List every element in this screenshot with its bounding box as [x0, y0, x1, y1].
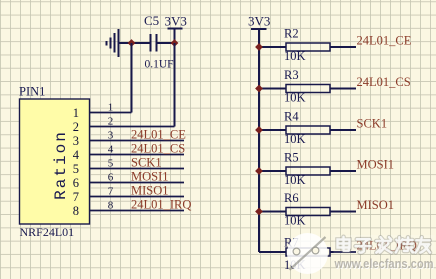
svg-text:7: 7: [73, 190, 79, 204]
wire junction B down to pin2: [174, 43, 176, 127]
svg-text:5: 5: [73, 162, 79, 176]
capacitor C5: [151, 34, 157, 52]
svg-text:10K: 10K: [284, 173, 306, 187]
resistor R3: [259, 68, 356, 105]
svg-text:Ration: Ration: [52, 130, 70, 200]
svg-text:24L01_CE: 24L01_CE: [131, 128, 186, 142]
resistor R4: [259, 110, 356, 147]
svg-text:10K: 10K: [284, 132, 306, 146]
resistor R6: [259, 191, 356, 228]
svg-text:10K: 10K: [284, 49, 306, 63]
wire junction A down to pin1: [131, 43, 133, 113]
wire 3V3 rail: [258, 29, 260, 252]
svg-text:R6: R6: [284, 191, 299, 205]
resistor R2: [259, 27, 356, 64]
junction R3: [255, 85, 263, 93]
junction R6: [255, 208, 263, 216]
svg-text:5: 5: [108, 158, 114, 170]
pin 3: [73, 130, 184, 149]
svg-text:R4: R4: [284, 110, 299, 124]
svg-text:SCK1: SCK1: [357, 116, 388, 130]
watermark: [287, 233, 435, 274]
svg-text:8: 8: [73, 204, 79, 218]
resistor R7: [259, 236, 356, 273]
pin 5: [73, 158, 184, 177]
svg-text:R5: R5: [284, 151, 299, 165]
svg-text:0.1UF: 0.1UF: [145, 59, 174, 71]
junction A: [128, 39, 136, 47]
junction R2: [255, 43, 263, 51]
svg-text:24L01_CS: 24L01_CS: [131, 142, 185, 156]
svg-text:6: 6: [73, 176, 79, 190]
svg-text:24L01_CS: 24L01_CS: [357, 75, 411, 89]
pin 8: [73, 200, 184, 219]
pin 6: [73, 172, 184, 191]
pin 7: [73, 186, 184, 205]
svg-text:3V3: 3V3: [248, 14, 270, 29]
pin 4: [73, 144, 184, 163]
svg-text:10K: 10K: [284, 214, 306, 228]
svg-text:MOSI1: MOSI1: [131, 170, 169, 184]
svg-text:7: 7: [108, 186, 114, 198]
svg-text:1: 1: [108, 102, 114, 114]
svg-text:3: 3: [73, 134, 79, 148]
svg-text:8: 8: [108, 200, 114, 212]
wire junction A to C5 left plate: [132, 42, 151, 44]
part U1 body: [20, 99, 90, 224]
svg-text:PIN1: PIN1: [19, 85, 45, 99]
svg-text:www.elecfans.com: www.elecfans.com: [334, 256, 434, 271]
wire C5 right plate to junction B: [157, 42, 175, 44]
svg-text:3V3: 3V3: [165, 14, 187, 29]
svg-text:3: 3: [108, 130, 114, 142]
svg-text:C5: C5: [144, 13, 159, 28]
svg-text:24L01_IRQ: 24L01_IRQ: [131, 198, 191, 212]
svg-text:2: 2: [73, 120, 79, 134]
svg-text:6: 6: [108, 172, 114, 184]
ground: [107, 29, 119, 57]
svg-text:MOSI1: MOSI1: [357, 157, 395, 171]
svg-text:R2: R2: [284, 27, 299, 41]
wire ground to junction A: [119, 42, 132, 44]
svg-text:4: 4: [73, 148, 80, 162]
junction B: [171, 39, 179, 47]
junction R4: [255, 126, 263, 134]
svg-text:SCK1: SCK1: [131, 156, 162, 170]
pin 2: [73, 116, 175, 135]
svg-text:24L01_CE: 24L01_CE: [357, 33, 412, 47]
svg-text:4: 4: [108, 144, 114, 156]
svg-text:2: 2: [108, 116, 114, 128]
pin 1: [73, 102, 132, 121]
power port 3V3 (left): [165, 14, 187, 44]
power port 3V3 (right): [248, 14, 270, 30]
junction R5: [255, 167, 263, 175]
svg-text:10K: 10K: [284, 91, 306, 105]
svg-text:R3: R3: [284, 68, 299, 82]
svg-text:MISO1: MISO1: [357, 198, 395, 212]
svg-text:NRF24L01: NRF24L01: [20, 225, 75, 239]
svg-text:MISO1: MISO1: [131, 184, 169, 198]
resistor R5: [259, 151, 356, 188]
svg-text:1: 1: [73, 106, 79, 120]
